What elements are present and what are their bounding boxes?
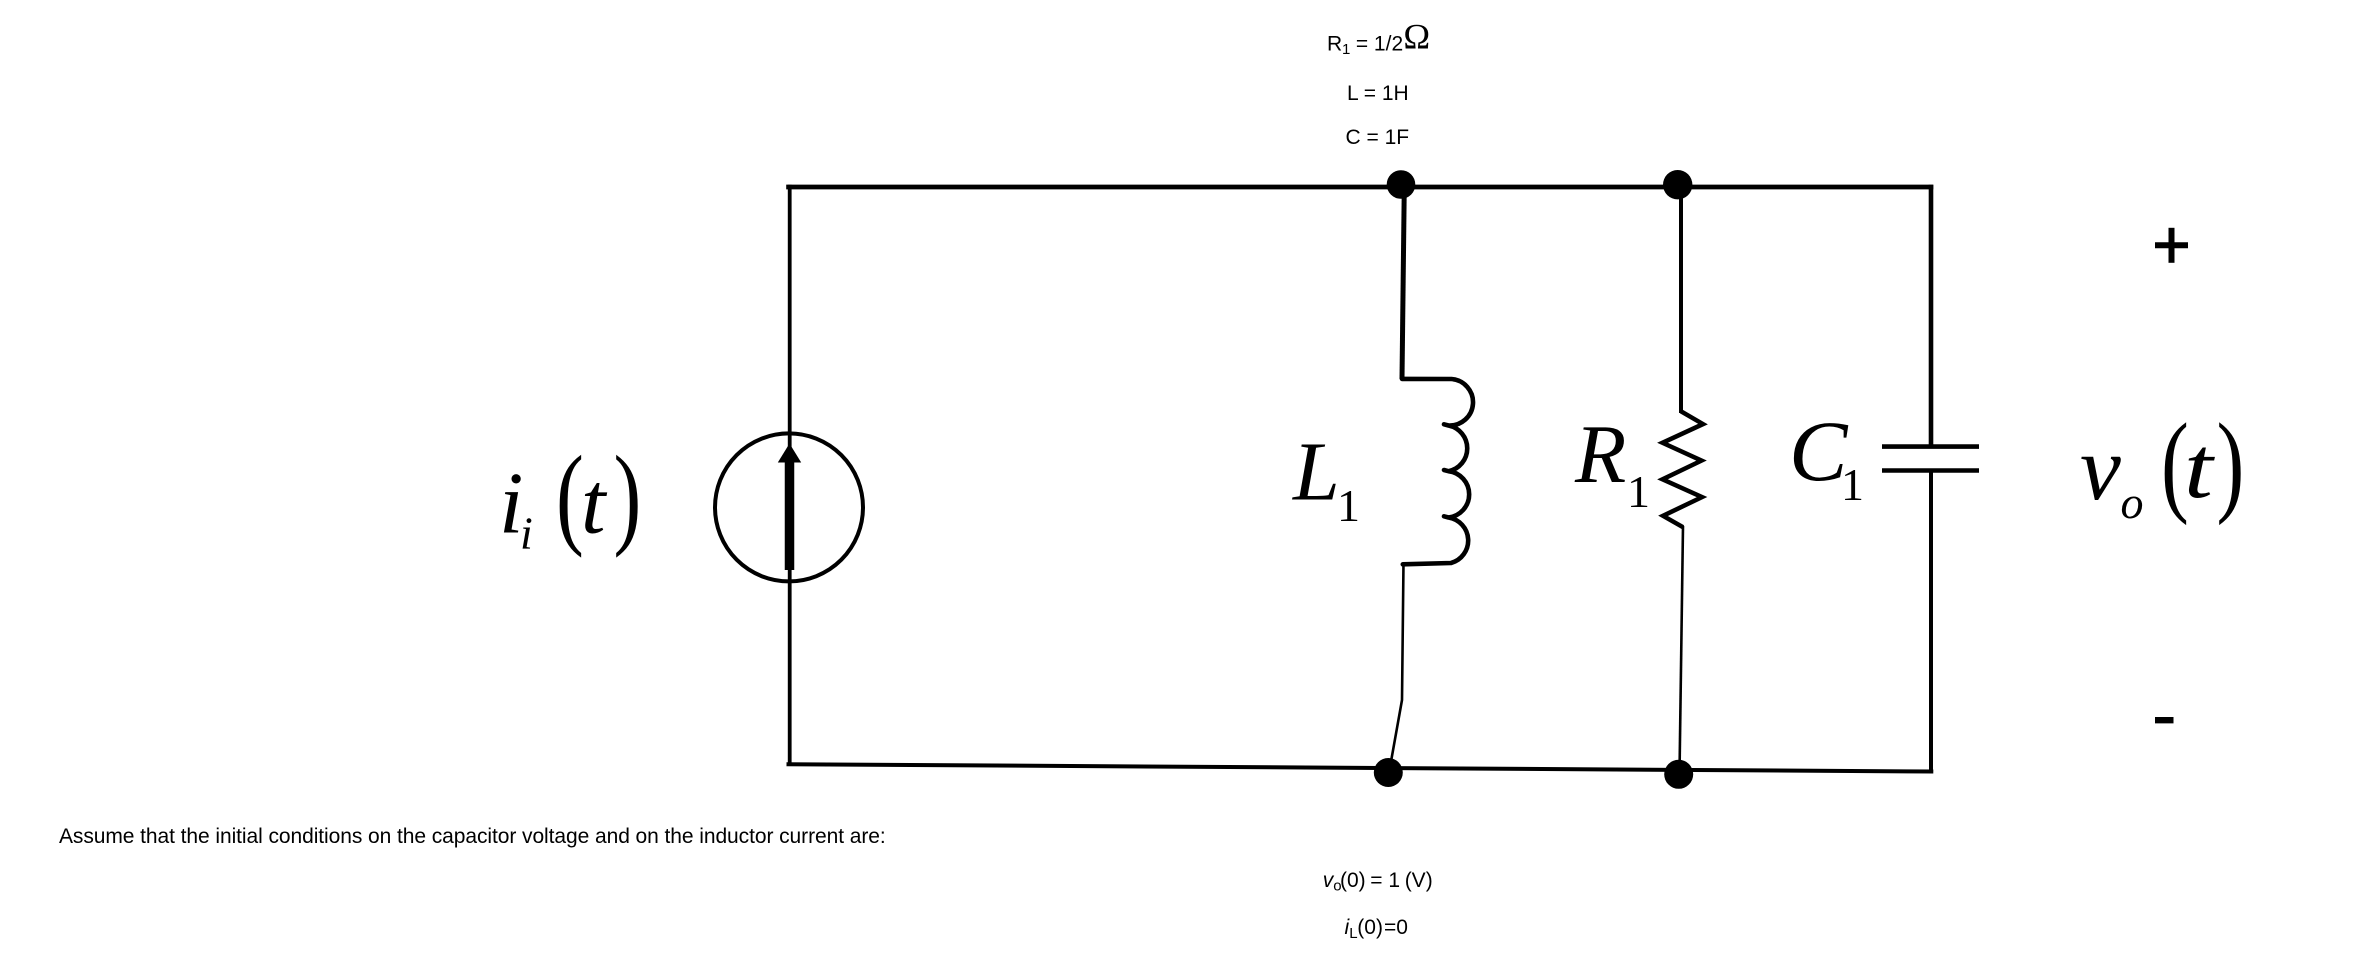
wire inductor top stub bbox=[1402, 185, 1404, 379]
svg-text:R: R bbox=[1327, 33, 1342, 56]
svg-text:): ) bbox=[2217, 400, 2245, 526]
svg-text:1: 1 bbox=[1841, 459, 1864, 510]
wire bottom bbox=[787, 764, 1934, 771]
svg-text:Assume that the initial condit: Assume that the initial conditions on th… bbox=[59, 825, 886, 848]
current source i_i circle bbox=[715, 433, 863, 581]
svg-text:L = 1H: L = 1H bbox=[1347, 82, 1409, 105]
svg-text:t: t bbox=[2184, 418, 2215, 516]
svg-text:1: 1 bbox=[1337, 480, 1360, 531]
svg-text:C = 1F: C = 1F bbox=[1346, 126, 1410, 149]
wire resistor top stub bbox=[1679, 185, 1683, 413]
polarity minus sign bbox=[2155, 717, 2174, 723]
polarity plus sign bbox=[2155, 228, 2188, 263]
svg-text:C: C bbox=[1789, 404, 1849, 499]
wire right upper (capacitor branch) bbox=[1929, 185, 1934, 446]
svg-text:= 1: = 1 bbox=[1370, 869, 1400, 892]
svg-text:v: v bbox=[2080, 417, 2121, 519]
current source arrow bbox=[778, 444, 801, 571]
svg-text:L: L bbox=[1292, 426, 1340, 519]
value label R1 = 1/2 Ohm bbox=[1327, 17, 1430, 59]
initial condition i_L(0) = 0 bbox=[1345, 916, 1408, 942]
wire right lower (capacitor branch) bbox=[1929, 471, 1933, 772]
wire top bbox=[786, 185, 1933, 190]
svg-text:= 1/2: = 1/2 bbox=[1350, 33, 1403, 56]
wire inductor bottom bbox=[1390, 563, 1404, 771]
inductor L1 coil bbox=[1402, 379, 1473, 564]
wire left (source branch) bbox=[788, 185, 792, 766]
initial condition v_o(0) = 1 (V) bbox=[1323, 869, 1433, 895]
svg-text:o: o bbox=[2121, 477, 2144, 528]
node junction dot bottom resistor bbox=[1664, 760, 1693, 789]
wire resistor bottom bbox=[1680, 526, 1684, 774]
node junction dot top inductor bbox=[1387, 170, 1416, 199]
svg-text:t: t bbox=[581, 456, 608, 553]
svg-text:Ω: Ω bbox=[1403, 17, 1430, 57]
resistor R1 zigzag bbox=[1663, 411, 1704, 527]
svg-text:1: 1 bbox=[1627, 466, 1650, 517]
svg-text:R: R bbox=[1574, 408, 1626, 501]
svg-text:(V): (V) bbox=[1405, 869, 1433, 892]
label L1 bbox=[1292, 426, 1360, 532]
label v_o(t) bbox=[2080, 400, 2244, 528]
svg-text:(0): (0) bbox=[1357, 916, 1383, 939]
svg-text:=0: =0 bbox=[1384, 916, 1408, 939]
svg-text:): ) bbox=[614, 433, 642, 559]
svg-text:i: i bbox=[520, 508, 533, 559]
node junction dot bottom inductor bbox=[1374, 758, 1403, 787]
capacitor C1 bottom plate bbox=[1882, 468, 1979, 473]
label C1 bbox=[1789, 404, 1864, 510]
label i_i(t) bbox=[499, 433, 641, 559]
label R1 bbox=[1574, 408, 1650, 517]
svg-text:(0): (0) bbox=[1340, 869, 1366, 892]
node junction dot top resistor bbox=[1663, 170, 1692, 199]
svg-text:(: ( bbox=[556, 433, 584, 559]
capacitor C1 top plate bbox=[1882, 444, 1979, 449]
